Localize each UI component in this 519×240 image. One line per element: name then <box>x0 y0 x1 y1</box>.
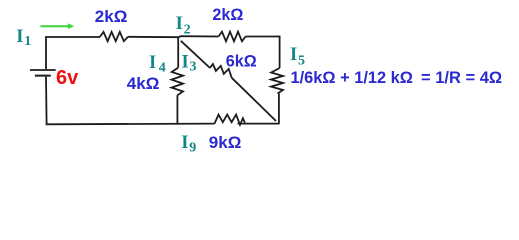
svg-text:I9: I9 <box>181 133 196 156</box>
wire: top rail left segment <box>45 36 100 38</box>
wire: right vertical lower segment <box>278 94 280 125</box>
svg-text:I2: I2 <box>176 14 191 38</box>
wire: top rail from R2 to top-right corner <box>246 36 281 38</box>
resistor R1 2k ohm (top-left, horizontal zigzag) <box>100 32 128 41</box>
node I2 junction jog <box>179 36 181 37</box>
wire: diagonal from R4 to bottom-right corner <box>232 78 276 121</box>
resistor R2 2k ohm (top-right, horizontal zigzag) <box>219 32 246 42</box>
resistor R3 4k ohm (middle vertical zigzag) <box>172 68 184 96</box>
svg-text:2kΩ: 2kΩ <box>212 6 243 24</box>
wire: bottom rail left segment <box>46 123 215 126</box>
svg-text:I5: I5 <box>290 45 305 69</box>
battery B1 negative plate (short) <box>35 75 51 77</box>
svg-text:4kΩ: 4kΩ <box>127 74 160 93</box>
wire: right vertical upper segment <box>279 36 281 68</box>
svg-text:6v: 6v <box>56 67 79 89</box>
resistor R9 9k ohm (bottom horizontal zigzag) <box>215 115 245 125</box>
wire: top-left vertical from battery up to top rail <box>45 37 47 69</box>
svg-text:= 1/R = 4Ω: = 1/R = 4Ω <box>421 69 502 87</box>
svg-text:I1: I1 <box>16 27 31 49</box>
svg-text:9kΩ: 9kΩ <box>209 133 242 152</box>
wire: left vertical from battery down to bottom rail <box>45 77 48 125</box>
wire: middle vertical from R3 down to bottom rail <box>176 95 178 123</box>
wire: bottom rail right segment <box>238 123 279 125</box>
svg-text:I3: I3 <box>182 52 197 74</box>
svg-text:2kΩ: 2kΩ <box>95 7 128 26</box>
svg-text:1/6kΩ + 1/12 kΩ: 1/6kΩ + 1/12 kΩ <box>291 69 413 87</box>
wire: top rail between R1 and node I2 <box>128 36 179 38</box>
wire: diagonal from node I2 to R4 <box>181 41 210 68</box>
resistor R4 6k ohm (diagonal zigzag) <box>210 64 232 78</box>
battery B1 positive plate (long) <box>30 69 56 71</box>
current arrow I1 (green) <box>40 23 74 29</box>
wire: middle vertical from node I2 down to R3 <box>177 37 179 67</box>
resistor R5 equivalent (right vertical zigzag) <box>271 68 283 94</box>
svg-text:6kΩ: 6kΩ <box>226 53 257 71</box>
svg-text:I4: I4 <box>149 53 166 75</box>
wire: top rail between node I2 and R2 <box>181 35 219 37</box>
